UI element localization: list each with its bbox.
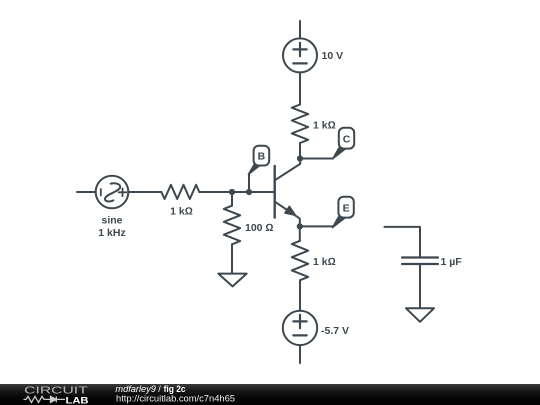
node dot at emitter [297,223,303,229]
voltage source V1 10V body [283,38,317,72]
wire: R4 to V2 [299,280,301,311]
svg-text:sine: sine [101,215,122,227]
svg-text:http://circuitlab.com/c7n4h65: http://circuitlab.com/c7n4h65 [116,393,235,403]
transistor Q1 emitter lead [275,202,300,227]
resistor R1 1 kOhm (horizontal) [161,185,199,199]
V2 plus sign [293,315,306,328]
wire: R2 to GND1 [231,244,233,273]
capacitor C1 bottom plate [402,263,438,265]
svg-text:-5.7 V: -5.7 V [321,325,349,337]
svg-text:LAB: LAB [66,395,89,405]
svg-text:C: C [343,133,351,145]
ground symbol GND2 [406,308,434,322]
flag B box [254,146,270,166]
V1 plus sign [293,43,306,56]
svg-text:1 kΩ: 1 kΩ [313,120,336,132]
svg-text:1 kHz: 1 kHz [98,227,125,239]
voltage source V2 -5.7V body [283,311,317,345]
V3 sine wave glyph [105,183,120,201]
wire: collector node up to R3 [299,143,301,159]
wire: left stub of source V3 [77,191,96,193]
wire: capacitor C1 bottom lead [419,265,421,308]
svg-text:fig 2c: fig 2c [164,384,186,394]
ground symbol GND1 [218,274,246,287]
svg-text:10 V: 10 V [322,50,344,62]
V2 minus sign [293,334,306,336]
flag E pointer [332,217,345,228]
wire: V3 to R1 [128,191,161,193]
svg-text:100 Ω: 100 Ω [245,222,274,234]
node dot at R2 junction [229,189,235,195]
resistor R2 100 Ohm (vertical) [224,206,240,245]
transistor Q1 emitter arrow [285,206,295,215]
wire: emitter node to flag E [300,225,333,227]
transistor Q1 base bar [274,166,276,218]
svg-text:mdfarley9: mdfarley9 [115,384,155,394]
footer logo resistor-diode squiggle [24,396,66,402]
svg-text:1 kΩ: 1 kΩ [313,256,336,268]
flag C pointer [333,148,346,159]
flag B pointer [248,165,260,175]
wire: capacitor C1 top lead [384,227,420,257]
transistor Q1 collector lead [275,159,301,181]
node dot at flag B junction [246,189,252,195]
V3 plus sign [119,188,127,196]
svg-text:B: B [258,150,266,162]
wire: R3 to V1 [299,73,301,105]
wire: top stub above V1 [299,21,301,38]
voltage source V3 (sine) body [96,176,129,209]
wire: R1 to base node [199,191,274,193]
V1 minus sign [293,62,306,64]
V3 minus-terminal bar [100,189,102,196]
wire: base node down to R2 [231,192,233,206]
resistor R3 1 kOhm (collector) [292,105,308,144]
svg-text:E: E [343,203,350,215]
node dot at collector [297,155,303,161]
svg-text:1 µF: 1 µF [441,256,463,268]
resistor R4 1 kOhm (emitter) [292,241,308,280]
wire: collector node to flag C [300,158,333,160]
wire: emitter node to R4 [299,226,301,240]
wire: bottom stub below V2 [299,345,301,363]
capacitor C1 top plate [402,256,438,258]
svg-text:1 kΩ: 1 kΩ [170,206,193,218]
flag C box [339,128,354,149]
wire: flag B stub [248,174,250,192]
flag E box [338,197,353,218]
